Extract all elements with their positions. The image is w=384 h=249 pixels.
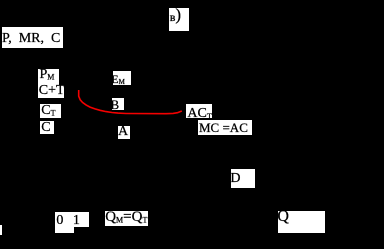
text в <box>170 11 176 23</box>
label box AC_T <box>186 104 212 119</box>
text P, MR, C <box>2 32 60 46</box>
label box D (demand) <box>231 169 255 188</box>
text P_M <box>40 68 55 85</box>
label box Q (x-axis caption) <box>278 211 325 234</box>
label box digit 0 (tall) <box>55 212 74 233</box>
text D <box>230 172 240 186</box>
label box P_M <box>38 69 59 84</box>
text C <box>41 121 50 135</box>
text ) large paren <box>175 6 181 23</box>
label box "в)" <box>169 8 189 31</box>
text 0 <box>56 214 63 228</box>
label box B <box>112 98 125 110</box>
label box Q_M=Q_T <box>105 211 148 227</box>
label box C_T <box>40 104 60 118</box>
left margin white sliver <box>0 225 2 235</box>
text C_T <box>41 104 55 121</box>
text Q <box>277 209 289 225</box>
text E_M <box>111 73 125 88</box>
label box MC=AC <box>198 120 252 135</box>
label box C <box>40 121 53 134</box>
text A <box>118 125 128 139</box>
text C+T <box>39 84 65 98</box>
label box digit 1 (wide) <box>55 212 88 227</box>
text MC =AC <box>199 121 248 134</box>
label box "P, MR, C" (y-axis caption) <box>2 27 64 48</box>
label box E_M <box>113 71 131 86</box>
text 1 <box>73 214 80 228</box>
text B <box>111 98 120 111</box>
text AC_T <box>187 107 212 123</box>
label box A <box>118 126 130 139</box>
label box C+T <box>38 85 64 99</box>
text Q_M=Q_T <box>105 210 147 228</box>
